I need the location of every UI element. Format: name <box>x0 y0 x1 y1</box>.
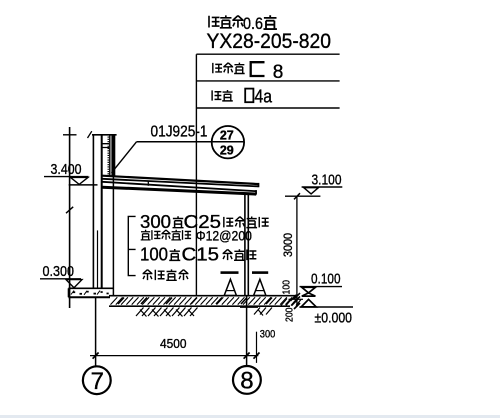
svg-text:3.400: 3.400 <box>51 161 82 178</box>
roof sheet end cap <box>258 183 260 187</box>
anchor bolt triangle right <box>254 279 266 295</box>
beam end cap <box>255 190 257 195</box>
svg-text:7: 7 <box>91 368 104 395</box>
svg-text:Φ12@200: Φ12@200 <box>196 228 252 244</box>
purlin tick <box>147 181 149 186</box>
outdoor ground hatch right of slab <box>281 299 301 306</box>
svg-text:200: 200 <box>283 307 295 322</box>
top chain tick line <box>285 195 320 197</box>
svg-text:8: 8 <box>273 62 284 83</box>
slash tick grid8 <box>244 353 250 359</box>
slash tick grid7 <box>93 353 99 359</box>
parapet wall cap <box>92 134 117 136</box>
svg-text:C15: C15 <box>182 245 220 265</box>
svg-text:3000: 3000 <box>283 233 295 257</box>
floor slab bottom <box>109 305 290 307</box>
svg-text:01J925-1: 01J925-1 <box>151 124 208 141</box>
svg-text:±0.000: ±0.000 <box>315 309 353 326</box>
grid 7 line <box>95 298 97 367</box>
chain slash ticks <box>291 293 301 309</box>
leader vertical from table to slab <box>195 54 197 296</box>
extension line 300 <box>256 332 258 363</box>
svg-text:YX28-205-820: YX28-205-820 <box>207 29 332 53</box>
inner liner line <box>97 230 99 288</box>
note row2: double layer both ways D12@200 <box>141 230 151 240</box>
floor slab top <box>109 295 297 297</box>
level +-0.000 <box>300 306 354 308</box>
label: sea-blue 0.6 thick sheet (top CJK line) <box>209 15 277 33</box>
svg-text:100: 100 <box>281 280 293 295</box>
svg-text:100: 100 <box>140 245 168 265</box>
steel column grid 8 <box>244 194 246 296</box>
note row4: rammed earth <box>143 270 153 281</box>
slash tick at wall cap <box>88 131 92 138</box>
label underline and bubble divider <box>137 141 245 143</box>
right dimension line 3000 <box>296 196 298 307</box>
soil hatch group left <box>136 308 198 317</box>
wall inner face <box>101 135 103 288</box>
grid 8 line below slab <box>246 296 248 367</box>
tick at wall top <box>63 134 77 136</box>
slab concrete hatch <box>111 297 293 304</box>
footer band <box>0 415 500 418</box>
detail bubble circle 27/29 <box>212 126 244 158</box>
footing speckles <box>73 291 109 295</box>
svg-text:300: 300 <box>140 212 171 232</box>
cladding comb teeth <box>107 137 109 177</box>
inner face below eave <box>112 176 114 296</box>
outdoor ground line <box>289 298 304 300</box>
slash tick mid <box>66 207 73 213</box>
leader diagonal to eave <box>112 142 137 173</box>
svg-text:300: 300 <box>260 329 276 341</box>
wall cladding sheet (black bar) <box>109 135 110 177</box>
svg-text:0.300: 0.300 <box>43 263 75 280</box>
dim line 4500 <box>90 355 258 357</box>
roof sheet line 1 <box>102 176 258 184</box>
roof sheet line 2 <box>102 179 258 187</box>
wall outer face <box>92 135 94 288</box>
anchor dashed plate right <box>252 271 268 274</box>
svg-text:29: 29 <box>220 144 234 158</box>
footing strip <box>68 288 113 297</box>
table row 2: steel beam 14a <box>212 86 272 107</box>
beam bottom line <box>102 187 256 194</box>
table: leader box lines <box>196 54 339 108</box>
svg-text:8: 8 <box>240 368 253 395</box>
grid bubble 7 <box>83 366 111 394</box>
anchor bolt triangle left <box>224 279 236 295</box>
slab bottom step line <box>240 306 258 308</box>
svg-text:4500: 4500 <box>160 337 187 351</box>
anchor dashed plate left <box>221 271 239 274</box>
purlin line <box>102 182 256 191</box>
left dimension line <box>69 127 71 308</box>
svg-text:0.100: 0.100 <box>311 270 341 287</box>
grid bubble 8 <box>233 366 261 394</box>
soil hatch group near column <box>254 308 272 316</box>
svg-text:27: 27 <box>220 129 234 143</box>
layer note bracket <box>128 216 135 277</box>
table row 1: steel purlin C8 <box>213 62 284 83</box>
svg-text:4a: 4a <box>255 86 273 107</box>
flashing connectors <box>101 144 109 148</box>
svg-text:3.100: 3.100 <box>312 171 342 188</box>
parapet base line at 3.400 <box>69 184 98 186</box>
